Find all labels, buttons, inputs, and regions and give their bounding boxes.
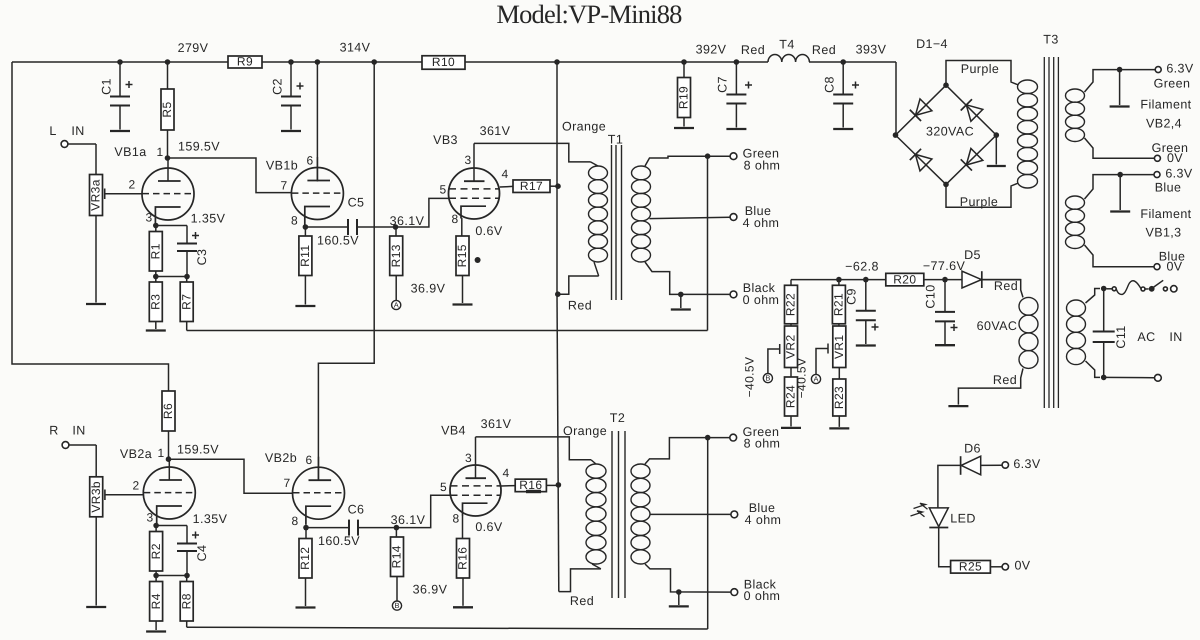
resistor R21: [838, 280, 840, 286]
svg-text:VR2: VR2: [784, 334, 798, 359]
svg-text:R23: R23: [832, 386, 846, 409]
wire VR3b wiper to VB2a grid: [105, 494, 143, 496]
wire R input: [69, 444, 96, 446]
svg-text:Orange: Orange: [562, 119, 606, 133]
ground VR3b: [86, 606, 106, 608]
ground filament green: [1119, 70, 1121, 105]
node B+ feed to output transformers: [554, 59, 560, 65]
wire to VB3 grid pin 5: [396, 198, 451, 227]
svg-text:IN: IN: [72, 423, 85, 437]
svg-text:Model:VP-Mini88: Model:VP-Mini88: [496, 0, 682, 29]
svg-text:0 ohm: 0 ohm: [744, 589, 781, 603]
svg-text:C10: C10: [923, 284, 937, 308]
svg-text:C4: C4: [195, 545, 209, 562]
potentiometer VR3b: [89, 477, 103, 517]
node R2/C4 junction: [153, 573, 159, 579]
svg-text:B: B: [765, 374, 770, 383]
resistor R14: [395, 528, 397, 537]
svg-text:C1: C1: [99, 78, 113, 95]
potentiometer VR3a: [89, 175, 103, 216]
svg-text:−77.6V: −77.6V: [923, 259, 966, 273]
svg-text:4: 4: [502, 466, 509, 480]
svg-text:6: 6: [305, 453, 312, 467]
terminal black 0 ohm right: [731, 589, 738, 596]
svg-text:Filament: Filament: [1140, 207, 1191, 221]
svg-text:160.5V: 160.5V: [317, 233, 359, 247]
resistor R12: [305, 528, 307, 539]
svg-text:AC: AC: [1137, 330, 1155, 344]
transformer T3 core: [1043, 57, 1045, 408]
transformer T1 secondary: [632, 166, 651, 180]
svg-text:8: 8: [451, 212, 458, 226]
svg-text:279V: 279V: [178, 41, 209, 55]
node T1 0ohm: [678, 292, 684, 298]
svg-text:R14: R14: [390, 545, 404, 568]
svg-text:8: 8: [452, 512, 459, 526]
terminal 0V LED: [1002, 564, 1008, 570]
svg-text:C11: C11: [1114, 325, 1128, 348]
node VB1a pin 1: [165, 155, 171, 161]
svg-text:R7: R7: [179, 294, 193, 310]
wire cathode to C4: [156, 525, 187, 527]
svg-text:R2: R2: [149, 543, 163, 559]
svg-text:6.3V: 6.3V: [1165, 167, 1193, 181]
tube VB2a: [143, 467, 195, 519]
LED: [929, 508, 948, 527]
ground T2 secondary: [678, 592, 680, 605]
diode D1: [915, 99, 932, 116]
transformer T3 filament winding VB2,4: [1066, 89, 1085, 102]
ground filament blue: [1119, 175, 1121, 210]
potentiometer VR2: [790, 324, 792, 326]
wire T1 4ohm tap: [650, 217, 731, 218]
LED light arrows: [914, 503, 928, 509]
wire 314V to VB2b plate: [318, 62, 374, 480]
node R16/B+: [556, 482, 562, 488]
wire to VB4 grid pin 5: [396, 495, 451, 527]
wire top supply rail: [12, 61, 768, 63]
node T2 8ohm tap: [705, 435, 711, 441]
node VB2a pin 1: [166, 456, 172, 462]
svg-text:R13: R13: [389, 244, 403, 267]
svg-text:−40.5V: −40.5V: [795, 358, 809, 399]
resistor R24: [790, 368, 792, 378]
wire D6 to LED: [938, 465, 961, 508]
ground VR3a: [86, 303, 106, 305]
node filament green: [1117, 67, 1123, 73]
svg-text:5: 5: [440, 480, 447, 494]
meter point B right: [392, 601, 401, 610]
capacitor C4: [186, 526, 188, 544]
svg-text:0 ohm: 0 ohm: [743, 293, 780, 307]
svg-text:36.9V: 36.9V: [413, 582, 448, 596]
svg-text:Blue: Blue: [1155, 180, 1182, 194]
svg-text:VB2a: VB2a: [120, 447, 152, 461]
potentiometer VR1: [838, 324, 840, 326]
tube VB4: [450, 465, 501, 516]
svg-text:C6: C6: [348, 502, 365, 516]
node AC bottom: [1101, 375, 1107, 381]
svg-text:R6: R6: [161, 403, 175, 419]
svg-text:1.35V: 1.35V: [193, 512, 228, 526]
svg-text:Green: Green: [1154, 76, 1191, 90]
node 36.1V right: [394, 525, 400, 531]
node R1/C3 junction: [153, 274, 159, 280]
svg-text:8: 8: [291, 514, 298, 528]
resistor R22: [790, 280, 792, 286]
svg-text:36.9V: 36.9V: [411, 281, 446, 295]
svg-text:36.1V: 36.1V: [390, 214, 425, 228]
svg-text:R1: R1: [148, 243, 162, 259]
svg-text:320VAC: 320VAC: [926, 124, 974, 138]
svg-text:6.3V: 6.3V: [1166, 62, 1194, 76]
svg-text:0V: 0V: [1166, 259, 1182, 273]
resistor R23: [838, 368, 840, 380]
svg-text:R: R: [49, 423, 58, 437]
resistor R8: [186, 576, 188, 582]
svg-text:C7: C7: [715, 76, 729, 93]
wire LED to R25: [939, 528, 951, 567]
wire R17 to B+ line: [550, 185, 558, 187]
svg-text:VB1a: VB1a: [114, 145, 146, 159]
svg-text:VB2b: VB2b: [265, 451, 297, 465]
svg-text:IN: IN: [71, 124, 84, 138]
capacitor C5: [347, 219, 349, 235]
svg-text:160.5V: 160.5V: [318, 534, 360, 548]
transformer T2 core: [611, 431, 613, 598]
node R21 top: [836, 277, 842, 283]
node VB2b plate feed: [371, 59, 377, 65]
node bridge top: [943, 82, 949, 88]
node AC top: [1101, 286, 1107, 292]
svg-text:C2: C2: [270, 78, 284, 95]
wire C5 to coupling node: [357, 226, 396, 228]
svg-text:4 ohm: 4 ohm: [743, 216, 780, 230]
resistor R5: [167, 62, 169, 89]
terminal L IN: [61, 141, 68, 148]
node C7 junction: [734, 59, 740, 65]
node T1 8ohm tap: [705, 153, 711, 159]
terminal 6.3V LED: [1002, 462, 1008, 468]
meter point A left: [392, 300, 401, 309]
capacitor C1: [119, 62, 121, 97]
svg-text:R5: R5: [160, 101, 174, 117]
wire AC bottom to terminal: [1104, 376, 1154, 378]
wire VB1b plate feed: [316, 62, 318, 182]
wire VB4 screen pin 4: [501, 485, 515, 487]
wire purple bottom: [946, 184, 1011, 207]
diode D6: [961, 456, 981, 475]
resistor R2: [155, 526, 157, 532]
svg-text:1: 1: [156, 145, 163, 159]
node 279V: [165, 59, 171, 65]
ground T1 secondary: [680, 294, 682, 308]
resistor R16 cathode: [456, 539, 470, 579]
svg-text:5: 5: [439, 183, 446, 197]
wire C6 to node: [358, 527, 396, 529]
svg-text:Purple: Purple: [961, 62, 1000, 76]
wire D6 to 6.3V: [981, 464, 1002, 466]
svg-text:0.6V: 0.6V: [475, 224, 503, 238]
transformer T1 primary: [589, 166, 608, 180]
tube VB2b: [293, 467, 345, 519]
svg-text:36.1V: 36.1V: [391, 513, 426, 527]
svg-text:VB4: VB4: [441, 423, 466, 437]
svg-text:2: 2: [132, 479, 139, 493]
svg-text:6.3V: 6.3V: [1013, 457, 1041, 471]
svg-text:D1−4: D1−4: [916, 37, 948, 51]
wire VR2 wiper: [768, 349, 780, 374]
ground R23: [829, 427, 849, 429]
capacitor C9: [865, 280, 867, 311]
svg-text:R16: R16: [456, 547, 470, 570]
wire T1 red tap jog: [558, 276, 599, 294]
resistor R3: [155, 277, 157, 283]
node VB2b pin 8: [303, 525, 309, 531]
wire VR1 wiper: [816, 349, 828, 375]
svg-text:T3: T3: [1043, 32, 1058, 46]
svg-text:R10: R10: [432, 55, 455, 69]
transformer T2 secondary: [631, 464, 650, 478]
svg-text:C9: C9: [844, 288, 858, 305]
svg-text:A: A: [394, 300, 399, 309]
svg-text:LED: LED: [950, 511, 976, 525]
node VB2a pin 3: [153, 523, 159, 529]
svg-text:A: A: [813, 374, 818, 383]
svg-text:C8: C8: [822, 76, 836, 93]
wire left 279V rail: [12, 62, 169, 391]
capacitor C2: [290, 62, 292, 97]
wire B+ to T1/T2 red taps: [556, 62, 558, 186]
svg-text:R25: R25: [959, 559, 982, 573]
node VB1b plate feed: [315, 59, 321, 65]
svg-text:314V: 314V: [340, 40, 371, 54]
wire 393V to bridge: [895, 62, 897, 135]
capacitor C7: [735, 62, 737, 95]
svg-text:7: 7: [283, 476, 290, 490]
wire pin8 to C6: [306, 527, 349, 529]
capacitor C11: [1103, 289, 1105, 332]
transformer T3 winding 60VAC: [1019, 297, 1038, 315]
resistor R4: [155, 576, 157, 582]
ground 60VAC: [948, 405, 968, 407]
svg-text:B: B: [394, 601, 399, 610]
ground R11: [295, 305, 315, 307]
resistor R1: [155, 226, 157, 232]
svg-text:6: 6: [306, 154, 313, 168]
ground bridge: [995, 135, 997, 164]
wire VR3a to ground: [95, 216, 97, 303]
ground R4: [146, 630, 166, 632]
wire VB3 screen pin 4 to R17: [500, 185, 513, 188]
svg-text:VB1b: VB1b: [266, 158, 298, 172]
transformer T3 filament winding VB1,3: [1066, 196, 1085, 209]
ground R12: [296, 606, 316, 608]
wire VB1a plate to VB1b grid: [168, 158, 292, 193]
wire VB4 cathode: [462, 515, 464, 539]
ground R3: [146, 329, 166, 331]
node C8 junction: [840, 59, 846, 65]
svg-text:R20: R20: [893, 272, 916, 286]
svg-text:R9: R9: [237, 55, 253, 69]
resistor R11: [304, 227, 306, 236]
ground R16: [453, 606, 473, 608]
svg-text:Red: Red: [993, 373, 1017, 387]
diode D3: [915, 154, 932, 171]
svg-text:R19: R19: [677, 86, 691, 109]
wire T2 0ohm tap: [645, 564, 731, 592]
meter point B bias: [763, 374, 772, 383]
svg-text:159.5V: 159.5V: [178, 139, 220, 153]
resistor R7: [186, 277, 188, 283]
wire VR3b to ground: [95, 517, 97, 606]
node C10 top: [942, 277, 948, 283]
svg-text:T1: T1: [608, 132, 623, 146]
svg-text:VB2,4: VB2,4: [1146, 116, 1182, 130]
svg-text:Red: Red: [994, 279, 1018, 293]
node 392V: [681, 59, 687, 65]
resistor R16 screen: [515, 478, 546, 492]
svg-text:Red: Red: [741, 43, 765, 57]
svg-text:R3: R3: [148, 294, 162, 310]
svg-text:8 ohm: 8 ohm: [744, 436, 781, 450]
svg-text:7: 7: [280, 179, 287, 193]
resistor R13: [395, 227, 397, 236]
transformer T3 primary: [1018, 80, 1038, 94]
ground R19: [674, 127, 694, 129]
svg-text:R11: R11: [298, 245, 312, 267]
node C1 junction: [117, 59, 123, 65]
transformer T1 core: [611, 145, 613, 300]
diode D5: [962, 271, 982, 288]
svg-text:361V: 361V: [481, 417, 512, 431]
wire VR3a wiper to VB1a grid pin 2: [105, 193, 143, 195]
terminal 0V blue: [1154, 264, 1160, 270]
svg-text:L: L: [49, 124, 56, 138]
wire feedback left channel: [187, 330, 708, 332]
svg-text:C5: C5: [348, 195, 365, 209]
svg-text:361V: 361V: [480, 124, 511, 138]
terminal 0V green: [1154, 155, 1160, 161]
resistor R17: [513, 179, 550, 193]
wire purple top: [946, 61, 1011, 86]
svg-text:Red: Red: [568, 298, 592, 312]
wire VB3 cathode: [461, 218, 463, 236]
tube VB1a: [142, 168, 194, 220]
svg-text:Red: Red: [570, 594, 594, 608]
svg-text:VR3a: VR3a: [89, 179, 103, 211]
svg-text:8: 8: [291, 214, 298, 228]
svg-text:IN: IN: [1169, 330, 1182, 344]
ground R15: [453, 303, 473, 305]
capacitor C10: [944, 280, 946, 312]
terminal green 8 ohm left: [730, 153, 737, 160]
wire R5 to VB1a plate: [167, 130, 169, 158]
svg-text:R22: R22: [784, 293, 798, 316]
svg-text:VB3: VB3: [433, 133, 458, 147]
resistor R25: [951, 559, 991, 573]
resistor R20: [886, 272, 924, 286]
wire L input: [68, 143, 96, 145]
terminal blue 4 ohm left: [730, 214, 737, 221]
tube VB3: [449, 168, 500, 219]
node VB1a pin 3 cathode: [153, 223, 159, 229]
svg-text:T2: T2: [610, 411, 625, 425]
svg-text:D5: D5: [964, 248, 981, 262]
fuse and switch AC line: [1107, 288, 1113, 290]
wire cathode to C3: [156, 225, 187, 227]
junction dot artifact: [475, 257, 481, 263]
wire VB3 plate to T1 orange: [473, 143, 475, 168]
svg-text:R17: R17: [520, 179, 543, 193]
meter point A bias: [811, 374, 820, 383]
node VB1b pin 8: [303, 224, 309, 230]
tube VB1b: [291, 168, 343, 220]
terminal green 8 ohm right: [730, 434, 737, 441]
terminal R IN: [62, 442, 69, 449]
svg-text:R12: R12: [298, 547, 312, 570]
svg-text:3: 3: [146, 511, 153, 525]
wire T2 4ohm tap: [650, 513, 731, 515]
terminal 6.3V green: [1155, 67, 1161, 73]
inductor T4: [768, 55, 809, 62]
svg-text:VB1,3: VB1,3: [1145, 225, 1181, 239]
transformer T3 mains winding: [1067, 300, 1086, 316]
node 36.1V left: [393, 224, 399, 230]
wire T1 0ohm tap: [645, 262, 730, 294]
svg-text:VR3b: VR3b: [89, 481, 103, 513]
svg-text:393V: 393V: [856, 42, 887, 56]
node bridge bottom: [943, 182, 949, 188]
bridge frame: [896, 85, 997, 184]
node bridge left: [893, 132, 899, 138]
svg-text:R4: R4: [149, 593, 163, 609]
capacitor C6: [348, 520, 350, 536]
svg-text:8 ohm: 8 ohm: [744, 158, 781, 172]
resistor R6: [161, 391, 175, 431]
svg-text:3: 3: [145, 211, 152, 225]
wire feedback right channel: [187, 627, 708, 629]
terminal black 0 ohm left: [730, 291, 737, 298]
wire pin8 to C5: [305, 226, 348, 228]
terminal AC neutral: [1155, 374, 1162, 381]
svg-text:−40.5V: −40.5V: [743, 357, 757, 398]
svg-text:T4: T4: [779, 37, 794, 51]
svg-text:1.35V: 1.35V: [191, 211, 226, 225]
svg-text:0V: 0V: [1014, 559, 1030, 573]
svg-text:R15: R15: [455, 244, 469, 267]
svg-text:0.6V: 0.6V: [475, 520, 503, 534]
terminal 6.3V blue: [1154, 172, 1160, 178]
svg-text:4 ohm: 4 ohm: [745, 513, 782, 527]
svg-text:4: 4: [501, 167, 508, 181]
node T2 0ohm: [676, 589, 682, 595]
terminal blue 4 ohm right: [731, 511, 738, 518]
svg-text:Red: Red: [812, 43, 836, 57]
node bridge right: [994, 132, 1000, 138]
wire bias rail: [791, 279, 886, 281]
node C2 junction: [288, 59, 294, 65]
node T1 red tap: [555, 291, 561, 297]
ground R24: [781, 427, 801, 429]
node C9 top: [863, 277, 869, 283]
svg-text:0V: 0V: [1167, 151, 1183, 165]
svg-text:Orange: Orange: [563, 424, 607, 438]
capacitor C3: [186, 226, 188, 244]
wire VB4 plate to T2 orange: [475, 437, 477, 465]
svg-text:D6: D6: [964, 441, 981, 455]
resistor R19: [683, 62, 685, 78]
